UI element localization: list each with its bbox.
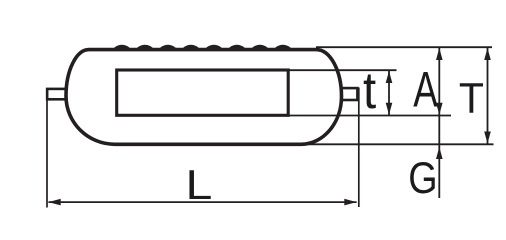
svg-text:t: t xyxy=(363,62,376,119)
scalloped ribs on body top xyxy=(112,45,292,50)
left terminal tab xyxy=(47,89,72,99)
svg-text:T: T xyxy=(459,74,484,122)
extension line from body top (right) xyxy=(316,46,492,48)
element window rectangle xyxy=(117,70,289,115)
fuse body outline xyxy=(66,50,342,145)
extension line from window top xyxy=(288,69,397,71)
extension line from body bottom (right) xyxy=(302,143,494,145)
extension line from window bottom xyxy=(288,115,451,117)
dimension line T xyxy=(484,47,491,144)
dimension line L xyxy=(48,199,356,206)
dimension line A with G pointer (shared vertical) xyxy=(436,47,443,198)
extension line right (from tab) for L xyxy=(358,88,360,208)
svg-text:L: L xyxy=(186,161,213,208)
dimension line t xyxy=(386,70,393,115)
extension line left (from tab) for L xyxy=(46,101,48,208)
svg-text:A: A xyxy=(413,62,438,118)
right terminal tab xyxy=(330,88,357,100)
svg-text:G: G xyxy=(408,153,437,202)
